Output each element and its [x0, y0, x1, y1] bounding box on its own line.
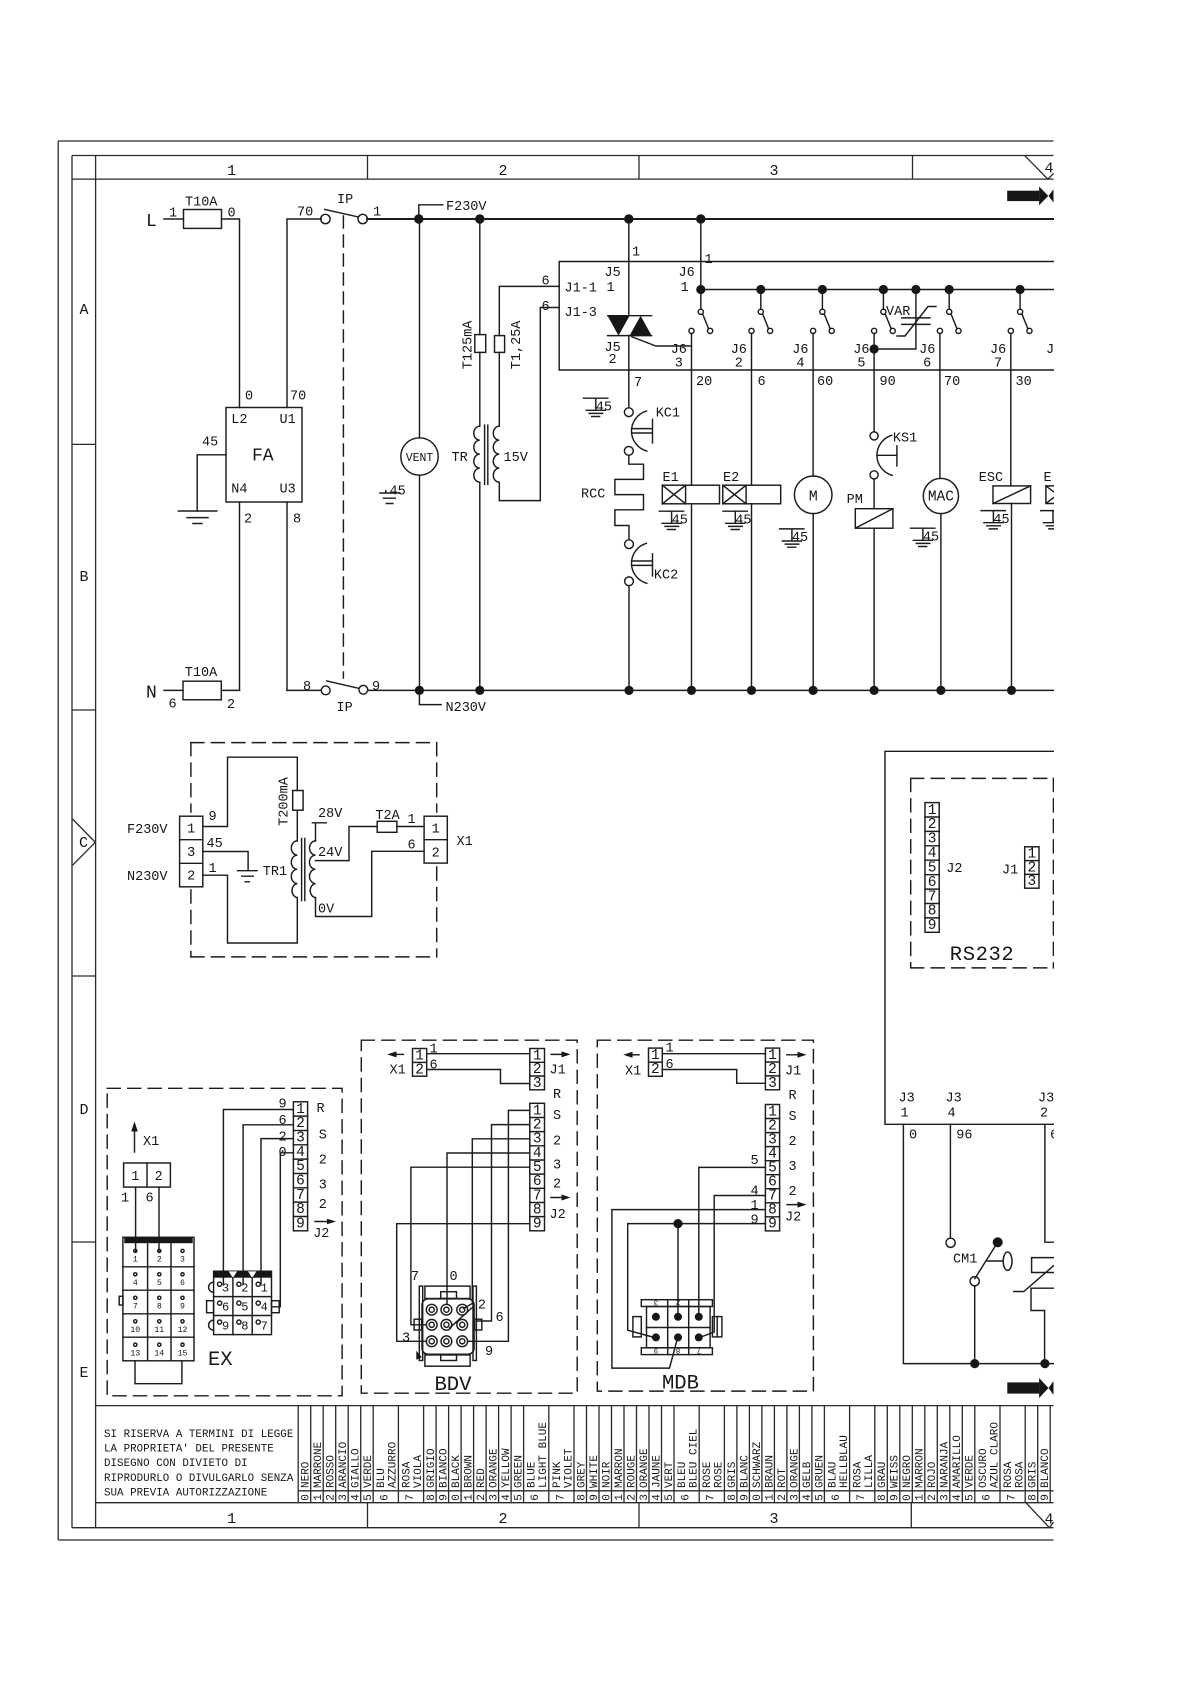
switch IP (bottom) [303, 680, 380, 716]
hole numbers (EX connector) [222, 1282, 268, 1334]
svg-text:9: 9 [209, 810, 217, 825]
svg-text:2: 2 [478, 1299, 486, 1314]
svg-text:GIALLO: GIALLO [351, 1448, 363, 1488]
svg-text:45: 45 [596, 401, 612, 416]
svg-text:E1: E1 [663, 471, 679, 486]
connector X1 (TR1) [424, 816, 473, 863]
svg-text:1: 1 [751, 1199, 759, 1214]
svg-text:3: 3 [553, 1159, 561, 1174]
svg-text:2: 2 [319, 1154, 327, 1169]
wire X1-1 to J1-1 [427, 1053, 530, 1055]
svg-text:3: 3 [789, 1160, 797, 1175]
wire pin1 to primary top [203, 757, 297, 826]
svg-text:1: 1 [464, 1494, 476, 1501]
transformer TR1 primary coil [291, 841, 297, 898]
svg-text:3: 3 [533, 1076, 542, 1092]
wire pin 60 [812, 334, 814, 477]
svg-text:6: 6 [180, 1279, 185, 1288]
block FA [202, 390, 306, 528]
svg-text:FA: FA [252, 447, 274, 467]
wire J2-3 to hole 1 [261, 1139, 293, 1285]
connector F230V/N230V 3-pin [180, 816, 203, 887]
svg-text:J2: J2 [550, 1208, 566, 1223]
svg-text:BLEU: BLEU [677, 1462, 689, 1488]
svg-text:6: 6 [408, 838, 416, 853]
svg-text:T10A: T10A [185, 196, 218, 211]
wire L to fuse [164, 218, 184, 220]
svg-text:J3: J3 [946, 1092, 962, 1107]
junction dots J6 bus [696, 285, 1024, 294]
svg-text:L2: L2 [231, 413, 247, 428]
svg-text:U3: U3 [280, 483, 296, 498]
svg-text:6: 6 [146, 1192, 154, 1207]
svg-text:GRIGIO: GRIGIO [426, 1448, 438, 1488]
svg-text:8: 8 [157, 1302, 162, 1311]
svg-text:WHITE: WHITE [589, 1455, 601, 1488]
svg-text:S: S [553, 1109, 561, 1124]
svg-text:T1,25A: T1,25A [510, 320, 525, 370]
contact 96 terminal [946, 1238, 955, 1247]
wire J2-5 to pin TR [699, 1167, 766, 1312]
svg-text:A: A [79, 302, 88, 319]
svg-text:15V: 15V [504, 451, 529, 466]
svg-text:15: 15 [178, 1349, 188, 1358]
svg-text:4: 4 [261, 1300, 268, 1314]
tap 0V wire to X1-2 [316, 851, 425, 917]
svg-text:SCHWARZ: SCHWARZ [752, 1441, 764, 1488]
svg-text:GREY: GREY [576, 1461, 588, 1488]
svg-text:3: 3 [675, 357, 683, 372]
svg-text:1: 1 [901, 1107, 909, 1122]
svg-text:VAR: VAR [886, 305, 910, 320]
svg-text:ARANCIO: ARANCIO [338, 1441, 350, 1488]
wire J3-1 net 0 [903, 1124, 1053, 1363]
border outer frame [58, 141, 1053, 1540]
wire X1-2 to J1-3 [662, 1070, 765, 1084]
svg-text:1: 1 [681, 281, 689, 296]
svg-text:ROJO: ROJO [927, 1461, 939, 1488]
svg-text:T125mA: T125mA [462, 320, 477, 370]
svg-text:7: 7 [994, 357, 1002, 372]
svg-text:VENT: VENT [406, 452, 434, 465]
svg-text:CM1: CM1 [953, 1253, 977, 1268]
svg-text:6: 6 [666, 1058, 674, 1073]
contact KC1 [624, 407, 680, 456]
svg-text:6: 6 [496, 1311, 504, 1326]
svg-text:MARRONE: MARRONE [313, 1441, 325, 1488]
wire J2-9 to pins TM and BL [628, 1224, 766, 1337]
sheet continuation arrow bottom right [1007, 1378, 1053, 1398]
svg-text:3: 3 [319, 1179, 327, 1194]
fuse T1,25A [495, 320, 525, 370]
svg-text:3: 3 [639, 1494, 651, 1501]
svg-text:4: 4 [651, 1494, 663, 1501]
connector 9-hole (EX) [207, 1271, 280, 1334]
wire U3 to IP bottom [287, 689, 321, 691]
resistor RCC [581, 455, 644, 539]
svg-text:5: 5 [157, 1279, 162, 1288]
ground 45 VENT [380, 485, 406, 504]
svg-text:2: 2 [241, 1282, 248, 1296]
transformer TR1 core [302, 839, 305, 901]
svg-text:1: 1 [187, 823, 195, 838]
svg-text:7: 7 [634, 376, 642, 391]
door switch (cut) [1014, 1258, 1054, 1359]
svg-text:KS1: KS1 [893, 431, 917, 446]
svg-text:KC2: KC2 [654, 569, 678, 584]
switch J6-2 [731, 294, 773, 371]
svg-text:NOIR: NOIR [601, 1461, 613, 1488]
svg-text:7: 7 [1007, 1494, 1019, 1501]
wire ESC to N rail [1011, 504, 1013, 691]
svg-text:70: 70 [944, 375, 960, 390]
svg-text:GRAU: GRAU [877, 1462, 889, 1488]
junction dot J6-5/VAR [870, 344, 879, 353]
svg-text:1: 1 [313, 1494, 325, 1501]
svg-text:70: 70 [290, 390, 306, 405]
wire J5 pin1 [628, 219, 630, 316]
svg-text:MDB: MDB [662, 1373, 699, 1396]
svg-text:ROSA: ROSA [853, 1461, 865, 1488]
motor M [794, 476, 832, 514]
svg-text:30: 30 [1016, 375, 1032, 390]
svg-text:U1: U1 [280, 413, 296, 428]
fuse T10A (bottom) [169, 666, 236, 713]
svg-text:J1-1: J1-1 [565, 282, 597, 297]
svg-text:7: 7 [856, 1494, 868, 1501]
svg-text:NARANJA: NARANJA [940, 1441, 952, 1488]
svg-text:2: 2 [927, 1494, 939, 1501]
svg-text:X1: X1 [143, 1135, 159, 1150]
arrow X1 (MDB) [623, 1052, 641, 1080]
svg-text:ROSE: ROSE [702, 1461, 714, 1488]
main rail F230V [367, 218, 1053, 220]
keypad buttons 1-15 [130, 1249, 187, 1358]
svg-text:1: 1 [705, 253, 713, 268]
electrovalve E1 [662, 471, 719, 504]
svg-text:5: 5 [514, 1494, 526, 1501]
svg-text:LIGHT BLUE: LIGHT BLUE [538, 1422, 550, 1488]
labels J2 right column (EX) [317, 1102, 327, 1213]
connector J1 (MDB) [765, 1048, 779, 1092]
svg-text:WEISS: WEISS [890, 1455, 902, 1488]
svg-text:8: 8 [241, 1319, 248, 1333]
svg-text:NEGRO: NEGRO [902, 1455, 914, 1488]
svg-text:0: 0 [451, 1494, 463, 1501]
svg-text:4: 4 [351, 1494, 363, 1501]
svg-text:2: 2 [498, 1511, 507, 1528]
electrovalve E (cut) [1044, 471, 1054, 504]
svg-text:45: 45 [672, 514, 688, 529]
wire J2-2 to hole 6 [478, 1125, 530, 1321]
svg-text:VERDE: VERDE [363, 1455, 375, 1488]
svg-text:VIOLA: VIOLA [413, 1455, 425, 1488]
svg-text:RED: RED [476, 1468, 488, 1488]
wire U1 riser [287, 219, 321, 408]
svg-text:45: 45 [735, 514, 751, 529]
arrow J2 (BDV) [550, 1195, 571, 1224]
svg-text:RS232: RS232 [950, 944, 1015, 967]
svg-text:PM: PM [847, 493, 863, 508]
wire E1 to N rail [691, 504, 693, 691]
svg-text:0: 0 [909, 1129, 917, 1144]
connector MDB 6-pin [633, 1300, 722, 1355]
svg-text:E: E [1044, 471, 1052, 486]
switch J6-3 [671, 294, 713, 371]
svg-text:TR1: TR1 [263, 865, 287, 880]
svg-text:2: 2 [553, 1178, 561, 1193]
wire J2-9 to hole 3 [397, 1224, 530, 1342]
TR1 power supply dashed box [191, 743, 437, 957]
svg-text:0: 0 [752, 1494, 764, 1501]
label J3 4 [946, 1092, 962, 1122]
svg-text:SUA PREVIA AUTORIZZAZIONE: SUA PREVIA AUTORIZZAZIONE [104, 1487, 267, 1499]
svg-text:45: 45 [923, 531, 939, 546]
connector X1 (EX) [121, 1163, 170, 1207]
electrovalve E2 [723, 471, 781, 504]
wire J3-4 net 96 [949, 1124, 951, 1238]
wire J6 pin1 [700, 219, 702, 290]
svg-text:ROSA: ROSA [401, 1461, 413, 1488]
svg-text:1: 1 [432, 822, 440, 837]
ground 45 (net 45 near KC1) [584, 398, 613, 416]
svg-text:D: D [79, 1102, 88, 1119]
svg-text:3: 3 [768, 1076, 777, 1092]
svg-text:MARRON: MARRON [915, 1448, 927, 1488]
ground 45 MAC [911, 528, 940, 546]
svg-text:9: 9 [890, 1494, 902, 1501]
wire X1-1 to J1-1 [662, 1053, 765, 1055]
wire J2-4 to hole 4 [272, 1153, 293, 1307]
wire fuse to TR primary [479, 352, 481, 426]
svg-text:S: S [319, 1129, 327, 1144]
svg-text:8: 8 [1028, 1494, 1040, 1501]
svg-text:VERDE: VERDE [965, 1455, 977, 1488]
svg-text:3: 3 [338, 1494, 350, 1501]
svg-text:2: 2 [157, 1256, 162, 1265]
svg-text:7: 7 [261, 1319, 268, 1333]
svg-text:T2A: T2A [375, 809, 400, 824]
junction dots N rail [415, 686, 424, 695]
svg-text:6: 6 [542, 300, 550, 315]
svg-text:J1: J1 [1002, 864, 1018, 879]
junction dot VENT rail [414, 214, 423, 223]
svg-text:7: 7 [706, 1494, 718, 1501]
svg-text:14: 14 [154, 1349, 164, 1358]
svg-text:AZZURRO: AZZURRO [388, 1441, 400, 1488]
svg-text:96: 96 [956, 1129, 972, 1144]
wire pin3 to ground [203, 852, 248, 871]
keyboard EX [119, 1237, 194, 1384]
wire T2A to X1-1 [397, 826, 424, 828]
triac J5 [608, 316, 692, 346]
svg-text:9: 9 [279, 1098, 287, 1113]
svg-text:2: 2 [498, 163, 507, 180]
wire M to N rail [812, 514, 814, 691]
connector J2 (MDB) [765, 1104, 779, 1232]
svg-text:7: 7 [405, 1494, 417, 1501]
svg-text:8: 8 [303, 680, 311, 695]
svg-text:2: 2 [626, 1494, 638, 1501]
svg-text:B: B [79, 569, 88, 586]
connector block J5/J6 box [559, 262, 1053, 371]
svg-text:1: 1 [169, 207, 177, 222]
svg-text:GELB: GELB [802, 1461, 814, 1488]
wire J2-2 to hole 2 [243, 1125, 293, 1284]
svg-text:3: 3 [222, 1282, 229, 1296]
arrow J2 (EX) [313, 1219, 336, 1242]
contact KS1 [870, 431, 917, 479]
wire PM to N rail [873, 528, 875, 690]
wire J3-2 net 6 [1045, 1124, 1054, 1242]
svg-text:T10A: T10A [185, 666, 218, 681]
labels wire numbers (EX) [279, 1098, 287, 1162]
svg-text:2: 2 [789, 1135, 797, 1150]
switch J6-4 [792, 294, 834, 371]
svg-text:8: 8 [426, 1494, 438, 1501]
svg-text:BLEU CIEL: BLEU CIEL [689, 1429, 701, 1488]
zone band bottom dividers [368, 1503, 912, 1528]
svg-text:BLUE: BLUE [527, 1461, 539, 1488]
svg-text:13: 13 [130, 1349, 140, 1358]
svg-text:4: 4 [1045, 161, 1054, 178]
ground 45 ESC [981, 511, 1010, 529]
svg-text:MARRON: MARRON [614, 1448, 626, 1488]
svg-text:E2: E2 [723, 471, 739, 486]
wire primary bottom loop to pin2 [203, 875, 297, 943]
svg-text:1: 1 [915, 1494, 927, 1501]
ground FA [178, 511, 217, 524]
svg-text:OSCURO: OSCURO [978, 1448, 990, 1488]
svg-text:9: 9 [928, 918, 937, 934]
svg-text:60: 60 [817, 375, 833, 390]
svg-text:C: C [79, 835, 88, 852]
arrow J1 (MDB) [785, 1052, 807, 1080]
switch J6-6 [919, 294, 961, 371]
svg-text:6: 6 [380, 1494, 392, 1501]
MDB flange pin numbers [653, 1297, 701, 1353]
svg-text:3: 3 [769, 163, 778, 180]
ground 45 M [780, 529, 809, 547]
svg-text:6: 6 [222, 1300, 229, 1314]
wire pin 70 [939, 334, 941, 479]
svg-text:ROT: ROT [777, 1468, 789, 1488]
block MDB dashed box [597, 1040, 813, 1391]
svg-text:3: 3 [187, 846, 195, 861]
svg-text:3: 3 [489, 1494, 501, 1501]
svg-text:2: 2 [789, 1185, 797, 1200]
svg-text:3: 3 [653, 1297, 658, 1305]
svg-text:X1: X1 [390, 1064, 406, 1079]
svg-text:3: 3 [180, 1256, 185, 1265]
wire J2-4 to hole 0 [447, 1153, 530, 1304]
svg-text:2: 2 [326, 1494, 338, 1501]
svg-text:BDV: BDV [435, 1374, 473, 1397]
svg-text:5: 5 [857, 357, 865, 372]
ground 45 E2 [723, 511, 752, 529]
svg-text:4: 4 [751, 1185, 759, 1200]
svg-text:GRUEN: GRUEN [814, 1455, 826, 1488]
svg-text:6: 6 [681, 1494, 693, 1501]
svg-text:10: 10 [130, 1326, 140, 1335]
svg-text:8: 8 [676, 1345, 681, 1353]
connector BDV 9-hole [414, 1286, 482, 1366]
label J5 1 [605, 266, 621, 296]
svg-text:BLANC: BLANC [739, 1455, 751, 1488]
switch CM1 [953, 1237, 1012, 1285]
svg-text:ROUGE: ROUGE [626, 1455, 638, 1488]
zone corner 4 bottom [1026, 1503, 1054, 1529]
wire J2-7 to pin BR [702, 1196, 765, 1337]
svg-text:7: 7 [697, 1345, 702, 1353]
block RS232 outer box [885, 751, 1054, 1124]
svg-text:0: 0 [450, 1270, 458, 1285]
block EX dashed box [107, 1088, 342, 1396]
svg-text:6: 6 [923, 357, 931, 372]
svg-text:2: 2 [244, 513, 252, 528]
transformer TR primary coil [474, 426, 480, 482]
svg-text:0V: 0V [318, 903, 335, 918]
wire J1-3 feed [499, 308, 559, 501]
svg-text:GRIS: GRIS [1028, 1461, 1040, 1488]
svg-text:0: 0 [601, 1494, 613, 1501]
svg-text:24V: 24V [318, 846, 343, 861]
connector J2 (EX) 9-pin [293, 1102, 307, 1233]
ground 45 E1 [659, 511, 688, 529]
svg-text:1: 1 [131, 1170, 139, 1185]
switch IP (top) [297, 193, 381, 224]
ground 45 E (cut) [1041, 511, 1054, 529]
svg-text:LA PROPRIETA' DEL PRESENTE: LA PROPRIETA' DEL PRESENTE [104, 1444, 274, 1456]
label J5 2 [605, 341, 621, 368]
wire pin 90 [873, 334, 875, 432]
svg-text:2: 2 [319, 1198, 327, 1213]
svg-text:9: 9 [654, 1345, 659, 1353]
svg-text:RCC: RCC [581, 488, 605, 503]
wire FA pin 45 to ground [197, 455, 226, 511]
svg-text:6: 6 [542, 275, 550, 290]
svg-text:J1: J1 [785, 1065, 801, 1080]
wire J2-3 to hole 2 [464, 1139, 530, 1309]
svg-text:MAC: MAC [928, 490, 954, 506]
svg-text:PINK: PINK [552, 1461, 564, 1488]
wire fuse to N4 corner [221, 689, 239, 691]
svg-text:M: M [809, 488, 818, 505]
svg-text:6: 6 [831, 1494, 843, 1501]
wire KC2 to N rail [628, 586, 630, 691]
svg-text:BLACK: BLACK [451, 1455, 463, 1488]
svg-text:0: 0 [301, 1494, 313, 1501]
svg-text:7: 7 [411, 1270, 419, 1285]
svg-text:5: 5 [965, 1494, 977, 1501]
arrow J2 (MDB) [785, 1202, 807, 1226]
svg-text:2: 2 [227, 698, 235, 713]
IP mechanical link dashed [342, 216, 344, 678]
svg-text:8: 8 [293, 513, 301, 528]
color table entries [301, 1422, 1053, 1501]
svg-text:2: 2 [777, 1494, 789, 1501]
svg-text:2: 2 [432, 846, 440, 861]
svg-text:N230V: N230V [127, 870, 168, 885]
svg-text:9: 9 [296, 1217, 305, 1233]
svg-text:3: 3 [940, 1494, 952, 1501]
svg-text:2: 2 [553, 1135, 561, 1150]
zone letter C chevron [73, 819, 96, 865]
svg-text:9: 9 [439, 1494, 451, 1501]
svg-text:BIANCO: BIANCO [439, 1448, 451, 1488]
bus J6 [701, 289, 1054, 291]
wire X1-2 to keypad [158, 1187, 160, 1252]
